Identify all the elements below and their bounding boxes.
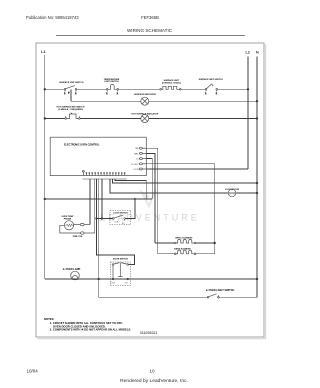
junction row1-L1	[44, 88, 46, 90]
surface unit switch SW1	[64, 86, 77, 95]
svg-text:BRL: BRL	[134, 153, 139, 155]
svg-text:Rendered by LeadVenture, Inc.: Rendered by LeadVenture, Inc.	[120, 378, 188, 384]
comb wire to lock switch	[101, 179, 103, 219]
svg-text:(2 SINGLE 1 DUAL): (2 SINGLE 1 DUAL)	[162, 82, 181, 85]
electronic oven control box U1	[50, 137, 146, 175]
svg-text:L1: L1	[41, 50, 45, 54]
svg-text:10/04: 10/04	[27, 368, 39, 373]
schematic border frame	[36, 43, 264, 337]
svg-text:NOTES:: NOTES:	[44, 317, 54, 321]
hot surface indicator switch	[65, 113, 80, 120]
svg-text:HOT SURFACE INDICATOR: HOT SURFACE INDICATOR	[131, 112, 158, 115]
wire oven lamp row	[45, 278, 257, 280]
svg-text:OVEN DOOR CLOSED AND UNLOCKED.: OVEN DOOR CLOSED AND UNLOCKED.	[53, 324, 106, 328]
comb wire to lamp row and light switch row	[98, 179, 100, 297]
door switch	[112, 263, 128, 280]
N bus wire	[256, 57, 258, 298]
wire bake row	[158, 253, 215, 255]
svg-text:1: 1	[205, 93, 206, 95]
bake element	[175, 250, 196, 254]
svg-text:(2 SINGLE, 1 REQUIRED): (2 SINGLE, 1 REQUIRED)	[58, 109, 83, 111]
junction door feed lock row	[95, 217, 97, 219]
junction broil right	[214, 242, 216, 244]
junction rowA-N	[256, 182, 258, 184]
wire drop from SW1 to row2	[70, 89, 72, 101]
wire comb row A to N	[113, 179, 258, 183]
svg-text:LIMIT SWITCH: LIMIT SWITCH	[104, 81, 119, 83]
wire probe bottom wrap	[60, 225, 81, 233]
svg-text:P: P	[68, 93, 70, 95]
svg-text:LOCK SWITCH: LOCK SWITCH	[113, 212, 128, 214]
title rule	[56, 35, 245, 37]
watermark logo	[139, 189, 156, 206]
junction lockrow-L1	[44, 198, 46, 200]
svg-text:DOOR SWITCH: DOOR SWITCH	[113, 259, 129, 261]
lock switch box	[110, 210, 131, 224]
L2 bus wire	[247, 57, 249, 170]
svg-text:Publication No: 5995419743: Publication No: 5995419743	[26, 15, 79, 20]
L1 bus wire	[44, 55, 46, 279]
wire comb stub row to x146	[115, 179, 146, 199]
junction row2-N	[256, 100, 258, 102]
svg-text:ELECTRONIC OVEN CONTROL: ELECTRONIC OVEN CONTROL	[64, 143, 100, 146]
pin L2 OUT	[139, 163, 142, 165]
comb wire to probe top	[89, 179, 91, 225]
comb wire to probe bottom	[94, 179, 96, 233]
svg-text:PRB CON: PRB CON	[73, 236, 83, 238]
svg-text:✳ OVEN LIGHT SWITCH: ✳ OVEN LIGHT SWITCH	[206, 288, 235, 292]
wire lock feed drop	[126, 199, 135, 219]
svg-text:✳ OVEN LAMP: ✳ OVEN LAMP	[63, 267, 81, 271]
oven lamp	[71, 271, 80, 280]
temperature limit switch	[106, 84, 118, 95]
wire row1 L1 to L2	[45, 88, 248, 90]
svg-text:2: 2	[75, 93, 76, 95]
wire lock row from L1	[45, 198, 152, 200]
svg-text:L2: L2	[245, 51, 249, 55]
junction row3-L1	[44, 117, 46, 119]
wire BRL net to broil element	[146, 153, 155, 243]
svg-text:FEF365B: FEF365B	[141, 15, 159, 20]
svg-text:L2 IN: L2 IN	[133, 169, 139, 171]
junction lock switch left	[101, 217, 103, 219]
wire row3 L1 to N	[45, 118, 257, 120]
svg-text:L1: L1	[136, 159, 139, 161]
wire L2 OUT net	[146, 164, 214, 254]
junction lamp row	[98, 278, 100, 280]
wire probe top to connector	[74, 224, 81, 226]
wire BK net to bake element	[146, 148, 158, 254]
hot surface indicator lamp	[141, 115, 149, 123]
svg-text:L2 OUT: L2 OUT	[131, 164, 139, 166]
svg-text:SURFACE UNIT SWITCH: SURFACE UNIT SWITCH	[199, 78, 224, 81]
wire L1 pin net	[146, 159, 152, 199]
svg-text:1: 1	[64, 93, 65, 95]
svg-text:COM: COM	[111, 282, 115, 284]
oven temp probe	[64, 221, 73, 230]
junction lamp row N	[256, 278, 258, 280]
lock motor	[228, 189, 236, 197]
door switch box	[110, 262, 130, 286]
svg-text:NO: NO	[125, 282, 128, 284]
svg-text:N: N	[256, 51, 259, 55]
pin BRL	[139, 152, 142, 154]
svg-text:2. COMPONENTS WITH ✳ DO NOT A: 2. COMPONENTS WITH ✳ DO NOT APPEAR ON AL…	[50, 328, 132, 332]
bottom connector comb of U1	[83, 170, 127, 179]
pin L2 IN	[139, 168, 142, 170]
pin L1	[139, 158, 142, 160]
wire row2 to N	[71, 100, 257, 102]
probe connector bottom	[80, 232, 84, 234]
svg-text:PROBE: PROBE	[64, 218, 72, 220]
broil element	[175, 239, 196, 243]
svg-text:2: 2	[216, 93, 217, 95]
comb wire to door switch feed	[96, 179, 134, 265]
wire L2 IN net	[146, 168, 248, 170]
junction rowB-N	[256, 192, 258, 194]
wire comb row B through lock motor	[110, 179, 257, 193]
wire broil row	[155, 242, 215, 244]
oven light switch	[207, 294, 219, 298]
surface indicator lamp	[141, 97, 149, 105]
probe connector top	[80, 223, 84, 225]
svg-text:316255311: 316255311	[140, 331, 158, 335]
pin BK	[139, 147, 142, 149]
junction row1-L2	[247, 88, 249, 90]
svg-text:1: 1	[106, 93, 107, 95]
lock switch	[113, 215, 126, 221]
svg-text:SURFACE UNIT SWITCH: SURFACE UNIT SWITCH	[59, 81, 84, 84]
svg-text:WIRING SCHEMATIC: WIRING SCHEMATIC	[127, 28, 173, 33]
junction row3-N	[256, 117, 258, 119]
surface unit heating element	[160, 86, 181, 90]
svg-text:10: 10	[149, 368, 155, 373]
wire oven light switch row	[99, 296, 257, 298]
svg-text:SURFACE INDICATOR: SURFACE INDICATOR	[134, 93, 156, 96]
svg-text:BAKE ELEMENT: BAKE ELEMENT	[174, 247, 191, 250]
svg-text:BK: BK	[136, 148, 139, 150]
wire lock switch row	[96, 218, 112, 220]
svg-text:2: 2	[117, 93, 118, 95]
junction lock feed	[134, 198, 136, 200]
surface unit switch SW2	[205, 84, 217, 95]
